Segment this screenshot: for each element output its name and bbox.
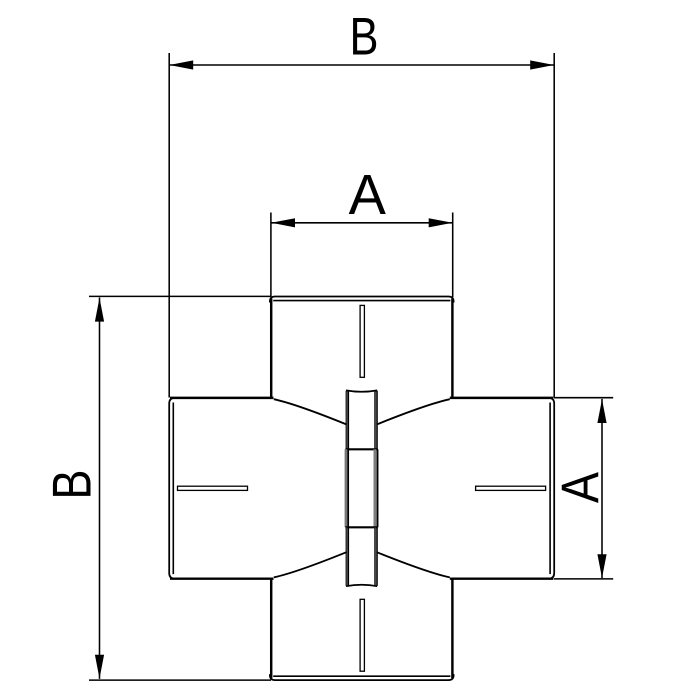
dimension B top: left arrowhead <box>169 60 193 69</box>
saddle curve bottom-right <box>377 552 450 577</box>
dimension A top: left arrowhead <box>271 218 295 227</box>
svg-text:A: A <box>349 162 387 226</box>
dimension A top: extension line left <box>270 213 272 298</box>
dimension A top: extension line right <box>452 213 454 298</box>
bottom socket: end face outline <box>270 674 454 680</box>
bottom socket: left side edge <box>270 578 272 678</box>
center hub: top section left side <box>345 391 347 450</box>
right socket: bottom side edge <box>450 577 554 579</box>
top socket: thread tick mark <box>360 305 364 377</box>
center hub: middle section left side <box>347 449 349 527</box>
dimension B left: extension line bottom <box>89 679 271 681</box>
dimension A right: extension line bottom <box>554 578 613 580</box>
center hub: upper divider <box>345 448 377 450</box>
svg-text:B: B <box>350 7 379 66</box>
bottom socket: thread tick mark <box>360 599 364 671</box>
top socket: end face outline <box>270 297 454 303</box>
left socket: chamfer line <box>172 403 174 575</box>
dimension A top: right arrowhead <box>429 218 453 227</box>
svg-text:B: B <box>40 470 102 500</box>
left socket: top side edge <box>170 397 274 399</box>
right socket: thread tick mark <box>476 486 546 490</box>
dimension B top: extension line left <box>168 53 170 398</box>
top socket: left side edge <box>270 299 272 399</box>
dimension A right: top arrowhead <box>597 399 606 423</box>
center hub: lower divider <box>345 526 377 528</box>
svg-text:A: A <box>550 471 609 503</box>
dimension B top: extension line right <box>553 53 555 398</box>
center hub: middle section left shading band <box>345 449 348 527</box>
top socket: chamfer line <box>273 300 450 302</box>
center hub: top end arc <box>346 390 377 391</box>
dimension B left: top arrowhead <box>95 298 104 322</box>
right socket: top side edge <box>450 397 554 399</box>
dimension B left: dimension line <box>99 298 101 679</box>
left socket: thread tick mark <box>178 486 248 490</box>
left socket: end face outline <box>169 398 175 579</box>
center hub: bottom section left side <box>345 527 347 586</box>
dimension B left: bottom arrowhead <box>95 655 104 679</box>
dimension A right: extension line top <box>554 397 613 399</box>
bottom socket: chamfer line <box>273 675 450 677</box>
dimension B top: right arrowhead <box>530 60 554 69</box>
right socket: end face outline <box>548 398 554 579</box>
dimension A top: dimension line <box>271 222 453 224</box>
dimension B top: dimension line <box>169 64 554 66</box>
center hub: bottom end arc <box>346 585 377 586</box>
dimension B left: extension line top <box>89 295 271 297</box>
right socket: chamfer line <box>549 403 551 575</box>
saddle curve bottom-left <box>274 552 347 577</box>
saddle curve top-left <box>274 399 347 424</box>
top socket: right side edge <box>451 299 453 399</box>
center hub: middle section right shading band <box>373 449 376 527</box>
center hub: bottom section right side <box>374 527 376 586</box>
bottom socket: right side edge <box>451 578 453 678</box>
center hub: top section right side <box>374 391 376 450</box>
left socket: bottom side edge <box>170 577 274 579</box>
center hub: middle section right side <box>377 449 379 527</box>
dimension A right: bottom arrowhead <box>597 554 606 578</box>
dimension A right: dimension line <box>601 399 603 578</box>
saddle curve top-right <box>377 399 450 424</box>
